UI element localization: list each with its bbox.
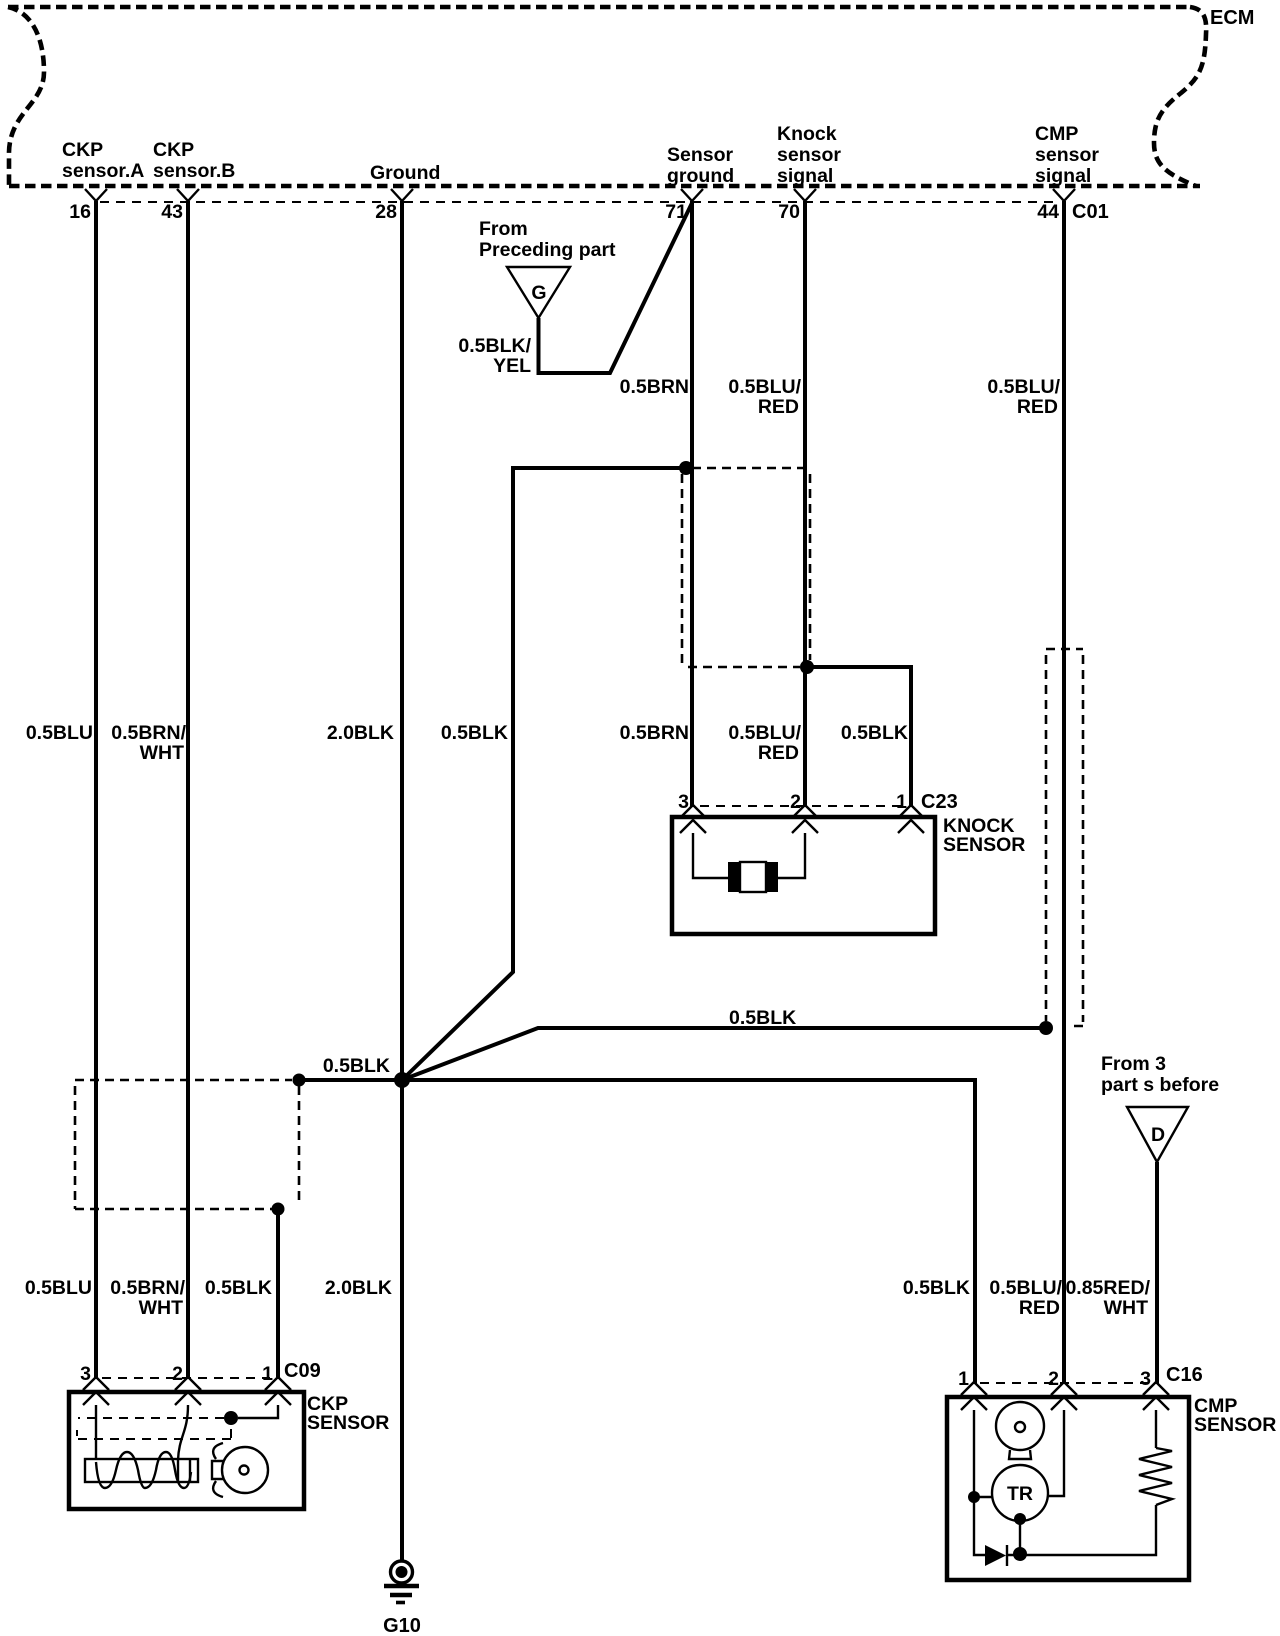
- svg-text:Preceding part: Preceding part: [479, 239, 616, 261]
- junction node on 0.5BLU/RED wire at shield: [800, 660, 814, 674]
- svg-text:3: 3: [1140, 1368, 1151, 1390]
- junction node CKP shield top: [293, 1074, 306, 1087]
- svg-text:CMP: CMP: [1035, 123, 1078, 145]
- svg-text:0.5BLK: 0.5BLK: [205, 1277, 272, 1299]
- svg-text:C01: C01: [1072, 201, 1109, 223]
- CKP sensor pin 2: [175, 1377, 201, 1405]
- connector C09 dashed line: [102, 1377, 270, 1379]
- svg-text:0.5BRN/: 0.5BRN/: [111, 722, 186, 744]
- wire 0.5BRN pin71 to knock pin3: [690, 201, 694, 807]
- ECM pin 70 terminal (Knock sensor signal): [794, 189, 816, 201]
- svg-text:70: 70: [778, 201, 800, 223]
- CMP pin1 internal wire: [974, 1410, 985, 1555]
- svg-text:ground: ground: [667, 165, 734, 187]
- CMP TR left junction node: [968, 1491, 980, 1503]
- svg-text:0.5BLU: 0.5BLU: [26, 722, 93, 744]
- wire 0.5BLK CKP pin1 drain: [276, 1209, 280, 1379]
- svg-text:part s before: part s before: [1101, 1074, 1219, 1096]
- shield (dashed) around CMP signal wire: [1046, 649, 1083, 1026]
- svg-text:RED: RED: [758, 396, 799, 418]
- svg-text:0.5BLU/: 0.5BLU/: [989, 1277, 1062, 1299]
- svg-text:0.85RED/: 0.85RED/: [1065, 1277, 1150, 1299]
- junction node CKP shield bottom: [272, 1203, 285, 1216]
- junction node on 0.5BRN wire: [679, 461, 693, 475]
- off-page connector triangle D: [1127, 1107, 1188, 1162]
- svg-text:2: 2: [790, 791, 801, 813]
- junction node at CMP shield: [1039, 1021, 1053, 1035]
- ground G10 symbol: [384, 1561, 419, 1603]
- svg-text:sensor.A: sensor.A: [62, 160, 144, 182]
- CKP sensor pin 1: [265, 1377, 291, 1405]
- CMP resistor: [1139, 1448, 1172, 1505]
- CMP diode: [985, 1545, 1007, 1566]
- wire 0.85RED/WHT from D to CMP pin3: [1155, 1162, 1159, 1384]
- svg-text:1: 1: [262, 1363, 273, 1385]
- svg-text:CKP: CKP: [153, 139, 194, 161]
- CMP element neck: [1009, 1450, 1031, 1459]
- svg-text:RED: RED: [758, 742, 799, 764]
- svg-text:16: 16: [69, 201, 91, 223]
- svg-text:WHT: WHT: [140, 742, 184, 764]
- svg-text:0.5BLK: 0.5BLK: [841, 722, 908, 744]
- knock piezo element wires: [693, 833, 805, 878]
- knock sensor pin 2: [792, 805, 818, 833]
- svg-text:SENSOR: SENSOR: [943, 834, 1025, 856]
- ECM pin 44 terminal (CMP sensor signal): [1053, 189, 1075, 201]
- svg-text:signal: signal: [777, 165, 833, 187]
- connector C16 dashed line: [980, 1382, 1148, 1384]
- CMP sensor box: [947, 1397, 1189, 1580]
- wire 0.5BLU/RED pin44 to CMP pin2: [1062, 201, 1066, 1384]
- svg-text:D: D: [1151, 1124, 1165, 1146]
- CKP pickup bracket: [212, 1461, 224, 1479]
- CKP pickup rotation marks: [213, 1443, 223, 1497]
- CMP sensor pin 1: [961, 1382, 987, 1410]
- svg-text:Sensor: Sensor: [667, 144, 734, 166]
- ECM pin 16 terminal (CKP sensor.A): [85, 189, 107, 201]
- wire 2.0BLK pin28 to ground G10: [400, 201, 404, 1561]
- svg-text:SENSOR: SENSOR: [307, 1412, 389, 1434]
- svg-text:sensor: sensor: [1035, 144, 1099, 166]
- svg-text:3: 3: [80, 1363, 91, 1385]
- svg-text:C09: C09: [284, 1360, 321, 1382]
- CMP transistor TR circle: [992, 1465, 1048, 1521]
- svg-text:1: 1: [958, 1368, 969, 1390]
- svg-text:0.5BLK: 0.5BLK: [441, 722, 508, 744]
- central junction node: [394, 1072, 410, 1088]
- CKP sensor pin 3: [83, 1377, 109, 1405]
- CKP internal dashed shield lines: [77, 1418, 231, 1439]
- svg-text:28: 28: [375, 201, 397, 223]
- svg-text:0.5BLU/: 0.5BLU/: [987, 376, 1060, 398]
- svg-text:0.5BLK/: 0.5BLK/: [458, 335, 531, 357]
- ECM pin 71 terminal (Sensor ground): [681, 189, 703, 201]
- CKP reluctor wheel: [222, 1447, 268, 1493]
- svg-text:CKP: CKP: [62, 139, 103, 161]
- svg-text:sensor: sensor: [777, 144, 841, 166]
- svg-text:C16: C16: [1166, 1364, 1203, 1386]
- svg-text:2: 2: [1048, 1368, 1059, 1390]
- svg-text:sensor.B: sensor.B: [153, 160, 235, 182]
- svg-text:3: 3: [678, 791, 689, 813]
- svg-text:2: 2: [172, 1363, 183, 1385]
- svg-text:G10: G10: [383, 1615, 421, 1636]
- svg-text:signal: signal: [1035, 165, 1091, 187]
- CKP internal junction node: [224, 1411, 238, 1425]
- CKP pin1 internal wire: [238, 1405, 278, 1418]
- svg-text:C23: C23: [921, 791, 958, 813]
- knock sensor box: [672, 817, 935, 934]
- CMP bottom junction node: [1013, 1547, 1027, 1561]
- CKP pin2 internal wire: [178, 1405, 188, 1482]
- wire 0.5BLU pin16 to CKP pin3: [94, 201, 98, 1379]
- svg-text:2.0BLK: 2.0BLK: [327, 722, 394, 744]
- ECM pin 28 terminal (Ground): [391, 189, 413, 201]
- svg-text:2.0BLK: 2.0BLK: [325, 1277, 392, 1299]
- CMP TR bottom junction node: [1014, 1513, 1026, 1525]
- connector C01 dashed line: [100, 201, 1058, 203]
- svg-text:0.5BLK: 0.5BLK: [903, 1277, 970, 1299]
- shield (dashed) around knock sensor wires: [682, 468, 810, 667]
- knock sensor pin 3: [680, 805, 706, 833]
- svg-text:RED: RED: [1019, 1297, 1060, 1319]
- knock piezo element: [728, 862, 778, 892]
- svg-text:0.5BLK: 0.5BLK: [729, 1007, 796, 1029]
- svg-text:YEL: YEL: [493, 355, 531, 377]
- svg-text:WHT: WHT: [1104, 1297, 1148, 1319]
- svg-text:TR: TR: [1007, 1483, 1033, 1505]
- svg-text:0.5BRN: 0.5BRN: [620, 722, 689, 744]
- ECM module dashed outline: [8, 7, 1206, 186]
- svg-text:Ground: Ground: [370, 162, 440, 184]
- CMP sensor pin 2: [1051, 1382, 1077, 1410]
- svg-text:43: 43: [161, 201, 183, 223]
- CKP coil winding: [96, 1452, 191, 1488]
- svg-text:0.5BRN/: 0.5BRN/: [110, 1277, 185, 1299]
- svg-text:RED: RED: [1017, 396, 1058, 418]
- CKP coil core: [85, 1459, 198, 1482]
- CMP TR emitter wire: [1019, 1521, 1021, 1555]
- svg-text:0.5BLU: 0.5BLU: [25, 1277, 92, 1299]
- svg-text:0.5BRN: 0.5BRN: [620, 376, 689, 398]
- svg-text:Knock: Knock: [777, 123, 837, 145]
- CMP bottom wire to resistor: [1007, 1505, 1156, 1555]
- svg-text:0.5BLU/: 0.5BLU/: [728, 376, 801, 398]
- svg-text:0.5BLK: 0.5BLK: [323, 1055, 390, 1077]
- CKP sensor box: [69, 1392, 304, 1509]
- svg-text:From 3: From 3: [1101, 1053, 1166, 1075]
- connector C23 dashed line: [700, 805, 903, 807]
- svg-text:WHT: WHT: [139, 1297, 183, 1319]
- wire 0.5BLK shield to junction to CMP pin1: [299, 1080, 975, 1384]
- knock sensor pin 1: [898, 805, 924, 833]
- svg-text:0.5BLU/: 0.5BLU/: [728, 722, 801, 744]
- wire 0.5BLK knock shield drain to junction: [402, 468, 686, 1080]
- CMP hall element circle: [996, 1402, 1044, 1450]
- wire 0.5BLK junction to CMP shield: [402, 1028, 1046, 1080]
- svg-text:From: From: [479, 218, 528, 240]
- ECM pin 43 terminal (CKP sensor.B): [177, 189, 199, 201]
- CMP sensor pin 3: [1143, 1382, 1169, 1410]
- svg-text:ECM: ECM: [1210, 7, 1254, 29]
- svg-text:1: 1: [896, 791, 907, 813]
- svg-text:44: 44: [1037, 201, 1059, 223]
- svg-text:SENSOR: SENSOR: [1194, 1414, 1276, 1436]
- wire 0.5BLU/RED pin70 to knock pin2: [803, 201, 807, 807]
- off-page connector triangle G (From Preceding part): [507, 267, 570, 318]
- svg-text:G: G: [531, 282, 546, 304]
- CKP pin3 internal wire: [95, 1405, 97, 1460]
- wire 0.5BRN/WHT pin43 to CKP pin2: [186, 201, 190, 1379]
- shield (dashed) around CKP sensor wires: [75, 1080, 299, 1209]
- CMP pin3 internal wire: [1155, 1410, 1157, 1448]
- wire 0.5BLK knock pin1: [807, 667, 911, 807]
- CMP pin2 internal wire: [1048, 1410, 1064, 1496]
- wire 0.5BLK/YEL from G to pin71: [539, 203, 693, 373]
